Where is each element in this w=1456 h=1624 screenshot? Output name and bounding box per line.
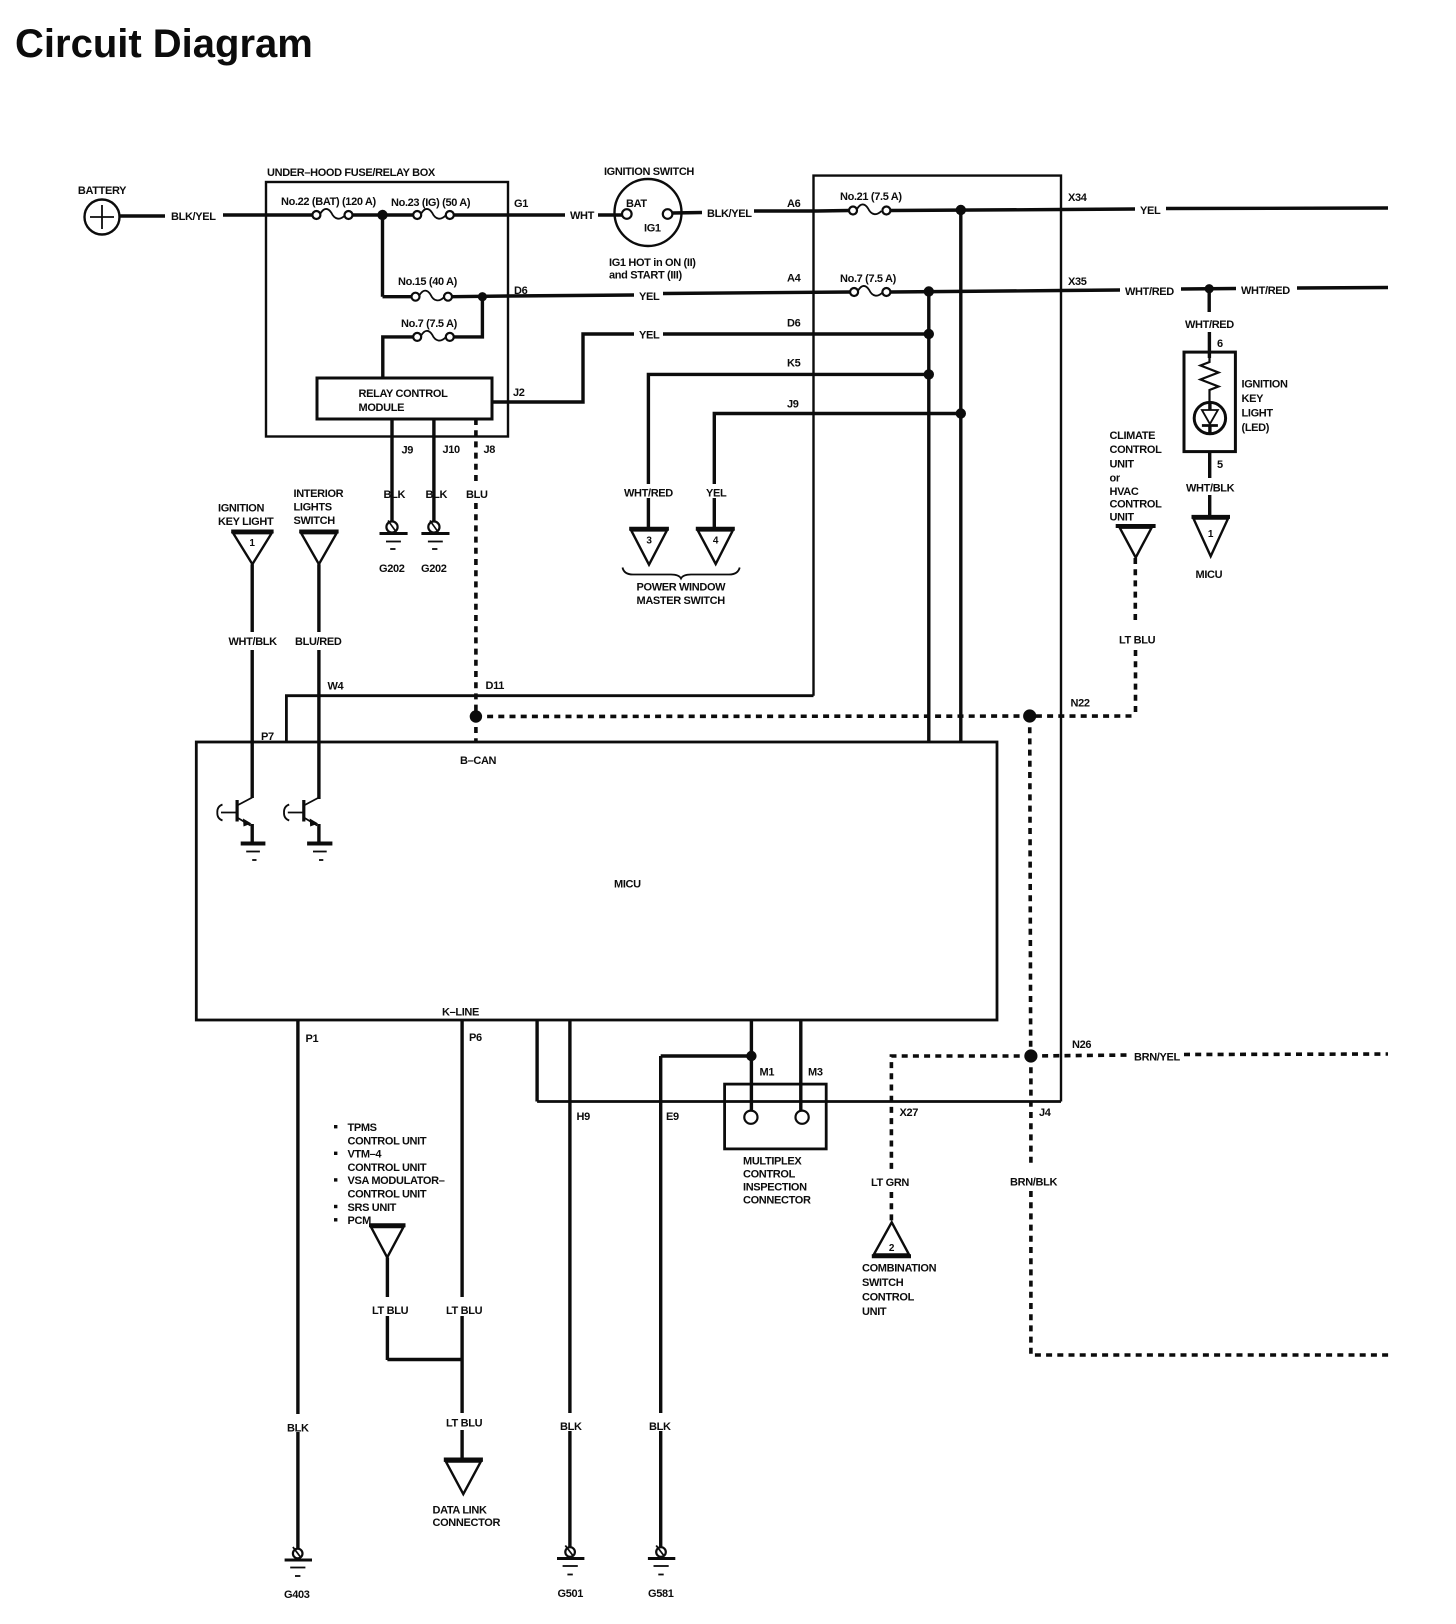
wire fuse21 to X34 xyxy=(890,210,1061,211)
svg-text:LIGHT: LIGHT xyxy=(1242,408,1274,420)
svg-text:CONNECTOR: CONNECTOR xyxy=(433,1517,501,1529)
triangle climate control unit xyxy=(1116,526,1156,558)
junction dot D6/vertical xyxy=(924,329,934,339)
wire label WHT/RED on K5 drop xyxy=(620,484,676,500)
svg-text:WHT/RED: WHT/RED xyxy=(1185,319,1234,331)
svg-text:G202: G202 xyxy=(379,563,405,575)
wire E9 vertical to ground xyxy=(659,1056,662,1548)
dashed wire BRN/YEL from N26 xyxy=(1031,1055,1129,1056)
svg-text:CONTROL: CONTROL xyxy=(1110,444,1163,456)
wire W4/D11 line to under-dash box xyxy=(286,696,813,742)
wire BLK/YEL into box xyxy=(223,213,313,216)
brace power window xyxy=(623,568,740,579)
svg-text:BLU/RED: BLU/RED xyxy=(295,636,342,648)
svg-text:MODULE: MODULE xyxy=(359,402,405,414)
label data link connector xyxy=(433,1505,501,1530)
svg-text:MASTER SWITCH: MASTER SWITCH xyxy=(637,595,726,607)
svg-text:PCM: PCM xyxy=(348,1215,372,1227)
svg-text:HVAC: HVAC xyxy=(1110,486,1139,498)
wire J10 module drop xyxy=(432,419,435,522)
svg-text:YEL: YEL xyxy=(706,488,727,500)
under-hood fuse/relay box xyxy=(266,167,508,437)
svg-text:X35: X35 xyxy=(1068,276,1087,288)
note IG1 HOT xyxy=(609,257,696,282)
wire BLK/YEL to under-dash box xyxy=(754,209,817,212)
svg-text:BLK: BLK xyxy=(287,1423,309,1435)
svg-text:No.7 (7.5 A): No.7 (7.5 A) xyxy=(401,318,458,330)
svg-text:G202: G202 xyxy=(421,563,447,575)
MICU pin P1 wire xyxy=(296,1020,299,1550)
svg-text:VSA MODULATOR–: VSA MODULATOR– xyxy=(348,1175,445,1187)
wire label BLK (H9) xyxy=(556,1413,594,1433)
wire BLU/RED to transistor xyxy=(317,650,320,799)
svg-text:J4: J4 xyxy=(1039,1107,1052,1119)
fuse No.15 (40 A) xyxy=(383,276,458,301)
list of K-LINE units xyxy=(334,1122,445,1227)
svg-text:LT BLU: LT BLU xyxy=(446,1418,483,1430)
svg-text:No.22 (BAT) (120 A): No.22 (BAT) (120 A) xyxy=(281,196,376,208)
dashed wire BRN/YEL to right end xyxy=(1184,1052,1388,1056)
junction dot after No.15 xyxy=(478,292,487,301)
svg-text:BLK: BLK xyxy=(426,489,448,501)
svg-text:6: 6 xyxy=(1217,338,1223,350)
svg-text:DATA LINK: DATA LINK xyxy=(433,1505,487,1517)
svg-text:5: 5 xyxy=(1217,459,1223,471)
svg-text:YEL: YEL xyxy=(639,291,660,303)
svg-text:P6: P6 xyxy=(469,1032,482,1044)
svg-text:J9: J9 xyxy=(402,445,414,457)
svg-text:TPMS: TPMS xyxy=(348,1122,377,1134)
svg-text:BRN/YEL: BRN/YEL xyxy=(1134,1052,1180,1064)
label interior lights switch xyxy=(294,488,344,527)
wire label BLK (E9) xyxy=(645,1413,683,1433)
wire BLU dashed to D11 xyxy=(474,503,478,742)
junction dot N26 xyxy=(1024,1049,1037,1062)
data link connector triangle xyxy=(444,1460,483,1494)
junction dot D11 on B-CAN dashed xyxy=(470,710,482,722)
fuse No.22 (BAT) (120 A) xyxy=(281,196,376,219)
svg-text:IG1: IG1 xyxy=(644,223,661,235)
svg-text:UNIT: UNIT xyxy=(1110,459,1135,471)
wire M3 from MICU xyxy=(799,1020,802,1111)
svg-text:WHT/RED: WHT/RED xyxy=(624,488,673,500)
svg-text:K5: K5 xyxy=(787,358,801,370)
triangle TPMS group xyxy=(369,1225,406,1257)
svg-text:KEY: KEY xyxy=(1242,393,1265,405)
svg-text:CLIMATE: CLIMATE xyxy=(1110,430,1156,442)
junction dot A6/vertical xyxy=(956,205,966,215)
junction dot N22 xyxy=(1023,709,1036,722)
junction dot K5/vertical xyxy=(924,369,934,379)
ground Q2 emitter xyxy=(307,844,332,861)
MICU box xyxy=(196,742,997,1020)
wire WHT/RED to right end xyxy=(1297,286,1388,290)
svg-text:BATTERY: BATTERY xyxy=(78,185,127,197)
wire No.15 branch down to No.7 row xyxy=(454,297,483,337)
wire fuse23 to G1 and ignition switch (WHT) xyxy=(454,213,565,216)
svg-text:CONTROL UNIT: CONTROL UNIT xyxy=(348,1189,427,1201)
MICU pin P6 wire xyxy=(460,1020,463,1462)
wire label LT BLU (TPMS branch) xyxy=(369,1297,410,1317)
multiplex control inspection connector box xyxy=(725,1084,827,1149)
svg-text:1: 1 xyxy=(1208,529,1214,540)
svg-text:M3: M3 xyxy=(808,1067,823,1079)
junction dot WHT/RED branch xyxy=(1205,284,1214,293)
svg-text:CONTROL: CONTROL xyxy=(1110,499,1163,511)
dashed wire LT BLU to B-CAN xyxy=(1134,650,1138,716)
svg-text:K–LINE: K–LINE xyxy=(442,1007,479,1019)
svg-text:BLK: BLK xyxy=(384,489,406,501)
junction dot A4/vertical xyxy=(924,286,934,296)
wire label LT BLU (P6 lower) xyxy=(443,1413,484,1430)
svg-text:LT BLU: LT BLU xyxy=(446,1305,483,1317)
svg-text:UNDER–HOOD FUSE/RELAY BOX: UNDER–HOOD FUSE/RELAY BOX xyxy=(267,167,436,179)
wire K5 row xyxy=(648,374,928,530)
dashed wire BRN/BLK to bottom corner xyxy=(1031,1191,1392,1355)
wire WHT/BLK down xyxy=(250,564,253,632)
wire battery to fuse box (BLK/YEL) xyxy=(120,214,166,217)
svg-text:3: 3 xyxy=(646,536,652,547)
svg-text:4: 4 xyxy=(713,536,719,547)
svg-text:or: or xyxy=(1110,472,1121,484)
svg-text:CONTROL UNIT: CONTROL UNIT xyxy=(348,1162,427,1174)
svg-text:INSPECTION: INSPECTION xyxy=(743,1182,807,1194)
svg-text:KEY LIGHT: KEY LIGHT xyxy=(218,516,274,528)
svg-text:MICU: MICU xyxy=(1196,569,1223,581)
svg-text:G581: G581 xyxy=(648,1588,674,1600)
svg-text:SWITCH: SWITCH xyxy=(862,1277,904,1289)
dashed wire X27 branch from N26 xyxy=(891,1056,1031,1172)
fuse No.7 (7.5 A) under-dash xyxy=(840,273,897,296)
wire J8 dashed drop (BLU) xyxy=(474,419,478,484)
svg-text:M1: M1 xyxy=(760,1067,775,1079)
wire LED box to pin 5 xyxy=(1208,452,1211,478)
svg-text:D11: D11 xyxy=(486,680,505,692)
svg-text:1: 1 xyxy=(249,538,255,549)
wire label BLK (P1) xyxy=(283,1414,321,1435)
resistor (LED ballast) xyxy=(1201,358,1219,403)
svg-text:WHT/BLK: WHT/BLK xyxy=(229,636,278,648)
dashed wire N22 to N26 xyxy=(1030,716,1031,1056)
svg-text:CONTROL: CONTROL xyxy=(743,1169,796,1181)
svg-text:SWITCH: SWITCH xyxy=(294,515,336,527)
dashed wire J4 BRN/BLK down xyxy=(1029,1056,1033,1166)
wire TPMS branch to P6 xyxy=(387,1358,462,1361)
label combination switch control unit xyxy=(862,1263,937,1319)
svg-text:2: 2 xyxy=(889,1243,895,1254)
ground G202 left xyxy=(379,521,408,576)
wire bottom bus / under-dash box bottom edge xyxy=(537,1100,1061,1103)
svg-text:G403: G403 xyxy=(284,1589,310,1601)
svg-text:J9: J9 xyxy=(787,399,799,411)
svg-text:BLK/YEL: BLK/YEL xyxy=(707,208,752,220)
svg-text:LT GRN: LT GRN xyxy=(871,1177,909,1189)
svg-text:H9: H9 xyxy=(577,1111,591,1123)
svg-text:BLU: BLU xyxy=(466,489,488,501)
wire WHT/RED middle xyxy=(1181,287,1236,291)
svg-text:MULTIPLEX: MULTIPLEX xyxy=(743,1156,802,1168)
fuse No.7 (7.5 A) under-hood xyxy=(401,318,458,341)
svg-text:W4: W4 xyxy=(328,681,345,693)
svg-text:COMBINATION: COMBINATION xyxy=(862,1263,937,1275)
svg-text:UNIT: UNIT xyxy=(862,1306,887,1318)
label power window master switch xyxy=(637,582,727,608)
svg-text:SRS UNIT: SRS UNIT xyxy=(348,1202,397,1214)
triangle 3 power window xyxy=(629,529,669,565)
ground G501 xyxy=(557,1546,584,1601)
wire fuse22 to junction xyxy=(353,213,414,216)
svg-text:E9: E9 xyxy=(666,1111,679,1123)
svg-text:G501: G501 xyxy=(558,1588,584,1600)
svg-text:G1: G1 xyxy=(514,198,528,210)
svg-text:VTM–4: VTM–4 xyxy=(348,1149,383,1161)
svg-text:BLK/YEL: BLK/YEL xyxy=(171,211,216,223)
svg-text:UNIT: UNIT xyxy=(1110,512,1135,524)
triangle 4 power window xyxy=(696,529,735,564)
wire fuse7 to X35 xyxy=(890,291,1061,293)
battery xyxy=(78,185,127,235)
svg-text:X27: X27 xyxy=(900,1107,919,1119)
ground Q1 emitter xyxy=(241,844,266,861)
ignition switch xyxy=(604,166,694,246)
svg-text:A4: A4 xyxy=(787,273,802,285)
vertical bus A4 to MICU xyxy=(927,292,930,743)
wire BLU/RED down xyxy=(317,564,320,632)
triangle 1 MICU xyxy=(1192,517,1231,556)
wire to LED box xyxy=(1208,332,1211,358)
junction dot J9/vertical xyxy=(956,408,966,418)
svg-text:LT BLU: LT BLU xyxy=(372,1305,409,1317)
svg-text:LT BLU: LT BLU xyxy=(1119,635,1156,647)
wire YEL to A4 xyxy=(663,292,851,294)
svg-text:X34: X34 xyxy=(1068,192,1088,204)
wire WHT/BLK to MICU triangle xyxy=(1208,495,1211,519)
svg-text:CONTROL: CONTROL xyxy=(862,1292,915,1304)
wire TPMS branch down xyxy=(386,1258,389,1361)
svg-text:YEL: YEL xyxy=(1140,205,1161,217)
wire fuse15 to D6 out xyxy=(452,294,508,298)
svg-text:WHT/RED: WHT/RED xyxy=(1125,286,1174,298)
svg-text:A6: A6 xyxy=(787,198,801,210)
svg-text:MICU: MICU xyxy=(614,879,641,891)
svg-text:J2: J2 xyxy=(513,387,525,399)
svg-text:BAT: BAT xyxy=(626,198,647,210)
wire X35 out (WHT/RED) xyxy=(1061,288,1120,292)
svg-text:No.23 (IG) (50 A): No.23 (IG) (50 A) xyxy=(391,197,471,209)
svg-text:WHT/RED: WHT/RED xyxy=(1241,285,1290,297)
wire WHT/RED branch down xyxy=(1207,289,1210,312)
fuse No.21 (7.5 A) xyxy=(817,191,902,215)
triangle 1 ignition key light xyxy=(231,532,273,565)
triangle 2 combination switch xyxy=(872,1222,911,1256)
svg-text:IG1 HOT in ON (II): IG1 HOT in ON (II) xyxy=(609,257,696,269)
svg-text:IGNITION: IGNITION xyxy=(218,503,264,515)
wire J9 module drop xyxy=(390,419,393,522)
svg-text:J8: J8 xyxy=(484,444,496,456)
wire label YEL on J9 drop xyxy=(701,484,731,500)
svg-text:No.15 (40 A): No.15 (40 A) xyxy=(398,276,458,288)
svg-text:(LED): (LED) xyxy=(1242,422,1270,434)
wire E9 horizontal from M1 junction xyxy=(661,1054,752,1057)
svg-text:RELAY CONTROL: RELAY CONTROL xyxy=(359,388,449,400)
label ignition key light xyxy=(218,503,274,529)
svg-text:WHT/BLK: WHT/BLK xyxy=(1186,483,1235,495)
svg-text:CONTROL UNIT: CONTROL UNIT xyxy=(348,1135,427,1147)
under-dash fuse/relay box outline xyxy=(814,176,1062,1102)
svg-text:BLK: BLK xyxy=(560,1421,582,1433)
svg-text:CONNECTOR: CONNECTOR xyxy=(743,1195,811,1207)
svg-text:Circuit Diagram: Circuit Diagram xyxy=(15,22,313,66)
svg-text:B–CAN: B–CAN xyxy=(460,755,497,767)
MICU pin H9 wire to ground xyxy=(568,1020,571,1548)
ground G403 xyxy=(284,1547,312,1601)
svg-text:INTERIOR: INTERIOR xyxy=(294,488,344,500)
relay control module xyxy=(317,378,492,419)
wire label LT BLU (P6 upper) xyxy=(443,1297,484,1317)
svg-text:BRN/BLK: BRN/BLK xyxy=(1010,1177,1057,1189)
svg-text:D6: D6 xyxy=(787,318,801,330)
transistor Q1 (ignition key light driver) xyxy=(217,798,252,844)
svg-text:WHT: WHT xyxy=(570,210,595,222)
dashed B-CAN wire D11 to N22 xyxy=(476,714,1136,718)
triangle interior lights switch xyxy=(299,532,338,565)
ignition key light LED box xyxy=(1184,352,1235,452)
wire J2 from module xyxy=(492,334,634,402)
svg-text:No.21 (7.5 A): No.21 (7.5 A) xyxy=(840,191,902,203)
junction dot M1/E9 xyxy=(746,1051,756,1061)
svg-text:LIGHTS: LIGHTS xyxy=(294,502,332,514)
ground G202 right xyxy=(421,521,450,576)
wire WHT to ignition switch xyxy=(598,213,623,216)
svg-text:BLK: BLK xyxy=(649,1421,671,1433)
label multiplex control inspection connector xyxy=(743,1156,811,1207)
svg-text:IGNITION: IGNITION xyxy=(1242,379,1288,391)
ground G581 xyxy=(648,1546,675,1601)
dashed wire LT BLU from climate triangle xyxy=(1134,558,1138,625)
svg-text:N26: N26 xyxy=(1072,1039,1091,1051)
svg-text:POWER WINDOW: POWER WINDOW xyxy=(637,582,727,594)
wire J9 row xyxy=(714,414,961,531)
vertical bus A6 to MICU xyxy=(959,210,962,742)
svg-text:YEL: YEL xyxy=(639,330,660,342)
svg-text:No.7 (7.5 A): No.7 (7.5 A) xyxy=(840,273,897,285)
LED (diode in circle) xyxy=(1194,402,1225,433)
wire IG1 to A6 (BLK/YEL) xyxy=(672,211,702,215)
wire fuse7 to relay control module xyxy=(383,337,413,378)
wire X34 out (YEL) xyxy=(1061,207,1135,211)
wire M1 from MICU xyxy=(750,1020,753,1111)
wire YEL to right end xyxy=(1166,206,1388,210)
dashed wire LT GRN to triangle 2 xyxy=(890,1192,894,1223)
wire D6 out to YEL xyxy=(508,295,634,296)
transistor Q2 (interior lights switch input) xyxy=(284,798,319,844)
wire MICU step to bottom bus xyxy=(535,1020,538,1102)
wire WHT/BLK to transistor xyxy=(250,650,253,798)
svg-text:IGNITION SWITCH: IGNITION SWITCH xyxy=(604,166,694,178)
svg-text:N22: N22 xyxy=(1071,698,1090,710)
svg-text:J10: J10 xyxy=(443,444,461,456)
fuse No.23 (IG) (50 A) xyxy=(391,197,471,219)
svg-text:P1: P1 xyxy=(306,1033,319,1045)
junction dot after No.22 xyxy=(377,210,387,220)
wire YEL to D6 under-dash xyxy=(663,332,929,335)
label climate control unit xyxy=(1110,430,1163,524)
label ignition key light (LED) xyxy=(1242,379,1288,435)
under-hood fuse box vertical branch to No.15 xyxy=(381,215,384,297)
svg-text:and START (III): and START (III) xyxy=(609,270,682,282)
